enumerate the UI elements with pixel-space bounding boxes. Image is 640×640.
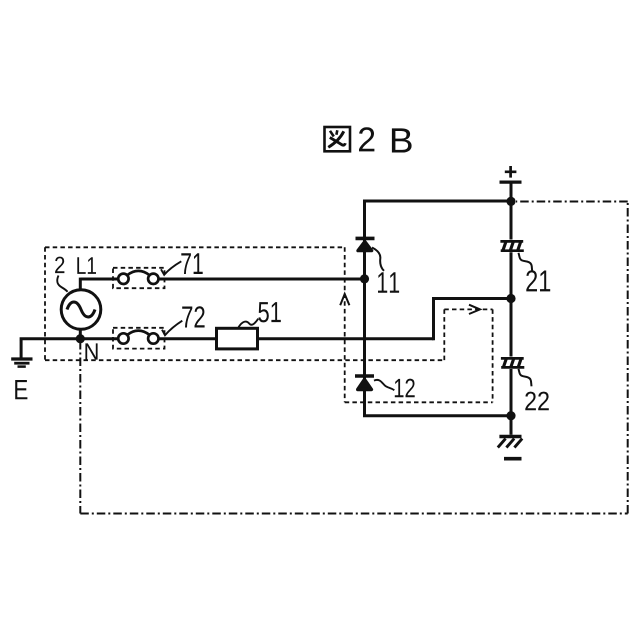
node bottom rail junction dot — [506, 411, 515, 420]
wire N line horizontal — [20, 337, 434, 340]
node N junction dot — [76, 334, 85, 343]
label 12 — [395, 379, 415, 398]
chain line surge path — [80, 202, 627, 514]
wire AC source top stub — [79, 278, 82, 290]
inductor 72 dashed box — [113, 328, 165, 349]
label 71 — [181, 253, 202, 274]
wire right rail vertical — [510, 182, 513, 435]
label 11 — [378, 272, 399, 293]
diode 11 — [356, 238, 375, 250]
inductor 72 — [118, 331, 158, 344]
diode 12 — [355, 376, 374, 390]
inductor 71 dashed box — [113, 268, 165, 288]
wire N step up segment — [434, 299, 512, 341]
inductor 71 — [118, 271, 158, 284]
node L1-diode junction dot — [360, 274, 369, 283]
plus terminal — [500, 166, 522, 182]
label 72 — [182, 306, 204, 327]
arrester 22 — [501, 358, 524, 368]
wire AC source bottom stub — [79, 329, 82, 338]
leader for 2 — [57, 276, 67, 292]
leader for 12 — [374, 380, 394, 390]
node plus rail junction dot — [506, 197, 515, 206]
label 21 — [526, 270, 550, 291]
leader for 51 — [239, 319, 259, 328]
label 51 — [258, 302, 280, 322]
AC source 2 — [61, 290, 101, 330]
dashed path right arrow — [469, 305, 480, 314]
label L1 — [77, 257, 96, 274]
earth ground E — [11, 359, 32, 367]
minus terminal — [504, 457, 522, 461]
resistor 51 — [217, 328, 258, 349]
label E — [15, 380, 27, 399]
label N — [85, 343, 97, 359]
leader for 21 — [519, 253, 533, 271]
dashed path up arrow — [340, 294, 349, 305]
label 22 — [525, 392, 549, 411]
leader for 11 — [372, 248, 384, 271]
wire diode branch bottom horizontal — [363, 414, 511, 417]
leader for 22 — [519, 369, 532, 386]
leader for 71 — [161, 261, 181, 275]
node mid rail junction dot — [506, 294, 515, 303]
leader for 72 — [162, 321, 182, 336]
dashed enclosure box 1 — [45, 247, 493, 402]
wire L1 line horizontal — [80, 278, 364, 281]
chassis ground bottom — [498, 437, 522, 448]
wire N left end down to earth — [20, 340, 23, 359]
wire diode branch top horizontal — [363, 200, 511, 203]
label 2 — [55, 257, 64, 274]
wire diode branch vertical — [363, 201, 366, 416]
title figure label 図2B — [325, 127, 412, 153]
arrester 21 — [500, 241, 523, 251]
